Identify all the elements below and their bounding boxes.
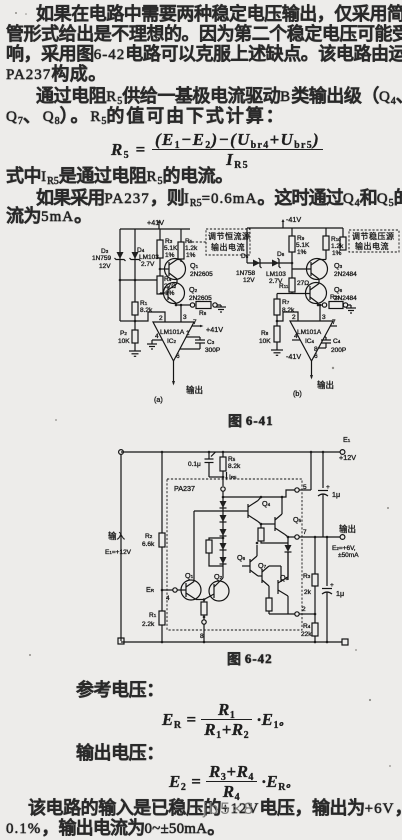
- node: Q1 base junction: [159, 268, 169, 271]
- svg-text:8.2k: 8.2k: [228, 463, 241, 470]
- resistor R9 5.1K: [289, 228, 310, 278]
- transistor Q6: [237, 542, 258, 576]
- transistor Q8: [269, 552, 289, 614]
- transistor Q1: [181, 511, 204, 600]
- resistor R4 27ohm: [157, 276, 176, 297]
- wire: top rail (a): [120, 228, 190, 230]
- svg-text:8: 8: [314, 346, 318, 353]
- transistor Q5: [261, 497, 302, 537]
- pin 7 output wire: [287, 529, 345, 539]
- annotation box: adjust regulator output current (b): [340, 228, 399, 252]
- zener diode D4 LM103: [130, 247, 160, 268]
- wire: zener bottom joining: [119, 279, 157, 282]
- svg-text:2.2k: 2.2k: [142, 621, 155, 628]
- svg-text:P2: P2: [120, 330, 127, 337]
- pin7 +41V supply (a): [192, 319, 223, 334]
- svg-text:IR5: IR5: [229, 474, 237, 481]
- svg-text:1%: 1%: [332, 250, 342, 257]
- svg-text:IC4: IC4: [305, 338, 315, 345]
- node ER with pin 4: [146, 585, 186, 602]
- shared emitter resistor and pin 8: [200, 598, 207, 642]
- svg-text:Q1: Q1: [190, 261, 199, 270]
- svg-text:LM103: LM103: [139, 254, 159, 261]
- svg-text:1μ: 1μ: [332, 490, 340, 499]
- wire: pin2 feedback path (a): [135, 312, 165, 322]
- wire: top rail E1: [119, 435, 357, 462]
- ground under R8: [271, 350, 283, 355]
- svg-text:(b): (b): [293, 389, 302, 398]
- wire: pin3 to output node (b): [319, 304, 326, 321]
- resistor R10 1.2k: [323, 228, 344, 260]
- closing paragraph line 2: [6, 819, 224, 837]
- svg-text:8: 8: [200, 633, 204, 640]
- svg-text:E2=+6V,: E2=+6V,: [332, 545, 356, 552]
- zener diode D3 1N759: [92, 248, 126, 270]
- svg-text:Q8: Q8: [280, 573, 289, 582]
- svg-text:12V: 12V: [243, 277, 255, 284]
- svg-text:-41V: -41V: [286, 215, 301, 224]
- svg-text:1μ: 1μ: [336, 589, 344, 598]
- output voltage heading: [76, 744, 164, 762]
- capacitor C4 200P: [314, 337, 346, 354]
- svg-text:R3: R3: [303, 573, 311, 580]
- svg-text:8.2k: 8.2k: [140, 307, 153, 314]
- svg-text:10K: 10K: [118, 338, 130, 345]
- paragraph 3 line 1: [36, 189, 402, 209]
- svg-text:1: 1: [186, 330, 190, 337]
- svg-text:10K: 10K: [259, 338, 271, 345]
- wire: D4 branch: [134, 229, 136, 280]
- annotation box: adjust current source output current (a): [188, 229, 251, 255]
- svg-text:D6: D6: [277, 251, 285, 258]
- resistor under Q7: [266, 598, 295, 614]
- svg-text:5.1K: 5.1K: [296, 242, 310, 249]
- svg-text:D5: D5: [241, 253, 249, 260]
- svg-text:2k: 2k: [304, 589, 312, 596]
- wire: left input column: [118, 454, 124, 644]
- svg-text:Q7: Q7: [258, 561, 267, 570]
- svg-text:300P: 300P: [205, 347, 220, 354]
- svg-text:+41V: +41V: [147, 218, 164, 227]
- transistor Q3 2N2484: [292, 259, 357, 284]
- svg-text:7: 7: [332, 319, 336, 326]
- svg-text:Q2: Q2: [189, 285, 198, 294]
- op-amp U2 LM101A (a): [153, 322, 194, 361]
- transistor Q2: [204, 568, 229, 601]
- svg-text:1%: 1%: [297, 249, 307, 256]
- resistor R2 6.6k: [142, 451, 165, 590]
- line: formula explanation: [6, 167, 233, 187]
- svg-text:Q2: Q2: [214, 572, 223, 581]
- svg-text:1%: 1%: [165, 252, 175, 259]
- paragraph 1 line 3: [6, 45, 402, 63]
- svg-text:(a): (a): [154, 395, 163, 404]
- svg-text:输出: 输出: [186, 385, 203, 395]
- formula R5: [111, 131, 323, 168]
- pin 2 terminal: [295, 606, 317, 616]
- svg-text:2: 2: [292, 314, 296, 321]
- transistor Q4: [194, 497, 271, 524]
- svg-text:-41V: -41V: [286, 352, 301, 361]
- svg-text:2N2605: 2N2605: [190, 271, 213, 278]
- svg-text:IC2: IC2: [167, 338, 177, 345]
- formula ER: [162, 701, 290, 738]
- ground right of R6: [216, 305, 226, 312]
- svg-text:输出电流: 输出电流: [355, 241, 389, 251]
- resistor R12 with terminals (b): [317, 294, 351, 309]
- input label: [105, 531, 132, 556]
- svg-text:3: 3: [183, 314, 187, 321]
- svg-text:R7: R7: [282, 299, 290, 306]
- svg-text:1N759: 1N759: [92, 255, 112, 262]
- resistor R1 2.2k: [142, 590, 165, 642]
- potentiometer P2 10K: [118, 321, 138, 351]
- resistor R11 27ohm: [279, 278, 309, 294]
- svg-text:LM103: LM103: [266, 271, 286, 278]
- +41V supply label: [147, 218, 164, 229]
- wire: bias node to pin5: [222, 490, 295, 498]
- watermark: [203, 799, 255, 819]
- resistor R3: [303, 537, 318, 614]
- resistor R3 5.1K: [157, 229, 178, 276]
- svg-text:R1: R1: [149, 612, 157, 619]
- transistor Q1 2N2605: [165, 259, 214, 284]
- svg-text:0.1μ: 0.1μ: [188, 461, 201, 468]
- output arrow (b): [310, 353, 334, 390]
- svg-text:200P: 200P: [331, 347, 346, 354]
- svg-text:1.2k: 1.2k: [185, 245, 198, 252]
- capacitor 1u top: [318, 451, 340, 537]
- paragraph 1 line 4: [6, 65, 107, 83]
- pin4 ground (a): [147, 333, 162, 349]
- formula E2: [169, 763, 297, 800]
- svg-text:2N2484: 2N2484: [334, 271, 357, 278]
- svg-text:R5: R5: [228, 456, 236, 463]
- pin7 (b): [330, 319, 337, 326]
- svg-text:E1=+12V: E1=+12V: [105, 549, 132, 556]
- svg-text:Q1: Q1: [185, 571, 194, 580]
- transistor Q2 2N2605: [164, 283, 213, 306]
- resistor R8 10K: [259, 320, 280, 350]
- svg-text:Q6: Q6: [334, 285, 343, 294]
- svg-text:E1: E1: [343, 435, 351, 444]
- svg-text:+41V: +41V: [206, 325, 223, 334]
- svg-text:LM101A: LM101A: [297, 329, 322, 336]
- resistor under Q4 emitter: [258, 523, 288, 543]
- svg-text:R3: R3: [165, 238, 173, 245]
- svg-text:C4: C4: [333, 338, 341, 345]
- svg-text:6: 6: [176, 353, 180, 360]
- output arrow (a): [172, 353, 203, 395]
- svg-text:Q4: Q4: [262, 499, 271, 508]
- pin 5 terminal: [295, 451, 313, 492]
- wire: pin2 path (b): [277, 312, 298, 321]
- resistor parallel to lower diodes: [206, 537, 224, 566]
- svg-text:1.2k: 1.2k: [331, 243, 344, 250]
- resistor R5 8.2k with IR5 arrow: [220, 451, 241, 486]
- svg-text:调节恒流源: 调节恒流源: [208, 231, 251, 241]
- svg-text:D4: D4: [137, 247, 145, 254]
- svg-text:1%: 1%: [165, 290, 175, 297]
- closing paragraph line 1: [28, 799, 402, 817]
- resistor R4 22k: [301, 614, 318, 642]
- resistor R5 1.2K: [178, 229, 198, 262]
- svg-text:2.7V: 2.7V: [141, 261, 155, 268]
- wire: D3 branch: [119, 229, 121, 321]
- wire: 0.1u to R5 node: [209, 476, 224, 479]
- resistor R7 8.2k: [274, 294, 295, 327]
- svg-text:1%: 1%: [186, 252, 196, 259]
- paragraph 2 line 2: [6, 107, 286, 127]
- svg-text:R2: R2: [145, 533, 153, 540]
- svg-text:PA237: PA237: [174, 484, 195, 493]
- svg-text:27Ω: 27Ω: [297, 280, 309, 287]
- svg-text:2: 2: [302, 606, 306, 613]
- pin 3 entry circle: [221, 487, 225, 497]
- svg-text:输出: 输出: [339, 524, 356, 534]
- wire: zener row (b): [247, 262, 292, 264]
- node: R1/P2 junction: [120, 320, 136, 323]
- svg-text:R6: R6: [199, 310, 207, 317]
- ground right of R12: [346, 305, 356, 313]
- capacitor 1u bottom: [322, 537, 344, 642]
- diode under Q5 emitter: [285, 537, 292, 580]
- svg-text:22k: 22k: [301, 631, 312, 638]
- reference voltage heading: [76, 681, 164, 699]
- transistor Q6 2N2484: [292, 283, 357, 306]
- svg-text:7: 7: [303, 529, 307, 536]
- svg-text:R4: R4: [303, 623, 311, 630]
- svg-text:R9: R9: [297, 235, 305, 242]
- wire: left vertical (b): [246, 228, 248, 263]
- svg-text:5.1K: 5.1K: [164, 245, 178, 252]
- PA237 dashed package box: [167, 479, 302, 630]
- svg-text:输入: 输入: [108, 531, 126, 541]
- svg-text:1N758: 1N758: [236, 270, 256, 277]
- svg-text:8.2k: 8.2k: [282, 307, 295, 314]
- svg-text:4: 4: [294, 333, 298, 340]
- svg-text:4: 4: [155, 333, 159, 340]
- wire: bottom rail: [121, 639, 348, 645]
- paragraph 3 line 2: [6, 207, 92, 225]
- paragraph 1 line 1: [36, 5, 402, 23]
- svg-text:7: 7: [193, 319, 197, 326]
- svg-text:D3: D3: [101, 248, 109, 255]
- zener diode D5 1N758: [236, 253, 262, 284]
- output labels: [332, 524, 359, 559]
- svg-text:输出: 输出: [317, 380, 334, 390]
- figure 6-41 caption: [228, 414, 274, 428]
- svg-text:输出电流: 输出电流: [211, 242, 245, 252]
- svg-text:+12V: +12V: [339, 453, 356, 462]
- resistor R1 8.2k: [132, 280, 153, 321]
- svg-text:Q6: Q6: [237, 553, 246, 562]
- paragraph 1 line 2: [6, 25, 402, 43]
- svg-text:6.6k: 6.6k: [142, 541, 155, 548]
- figure 6-42 caption: [227, 652, 273, 666]
- wire: top rail (b): [247, 227, 343, 229]
- svg-text:Q5: Q5: [293, 515, 302, 524]
- capacitor C3 300P: [180, 330, 220, 354]
- svg-text:Q3: Q3: [334, 261, 343, 270]
- resistor R6 with terminals (a): [175, 302, 221, 318]
- svg-text:±50mA: ±50mA: [338, 552, 359, 559]
- ground under P2: [129, 351, 141, 356]
- diode stack D x5: [220, 497, 227, 568]
- svg-text:ER: ER: [146, 585, 155, 594]
- svg-text:R8: R8: [261, 330, 269, 337]
- transistor Q7: [258, 561, 269, 598]
- capacitor 0.1u: [188, 451, 216, 477]
- svg-text:2: 2: [159, 315, 163, 322]
- svg-text:R11: R11: [279, 283, 289, 290]
- zener diode D6 LM103: [266, 251, 286, 285]
- svg-text:R1: R1: [140, 300, 148, 307]
- svg-text:LM101A: LM101A: [160, 329, 185, 336]
- svg-text:12V: 12V: [99, 263, 111, 270]
- svg-text:3: 3: [322, 314, 326, 321]
- op-amp U4 LM101A (b): [290, 321, 333, 361]
- wire: pin3 to output node (a): [180, 304, 187, 322]
- pin4 and -41V (b): [286, 333, 301, 361]
- paragraph 2 line 1: [36, 87, 402, 107]
- svg-text:R12: R12: [330, 294, 340, 301]
- -41V supply label: [282, 215, 302, 228]
- svg-text:C3: C3: [207, 339, 215, 346]
- svg-text:6: 6: [314, 353, 318, 360]
- svg-text:R5: R5: [185, 238, 193, 245]
